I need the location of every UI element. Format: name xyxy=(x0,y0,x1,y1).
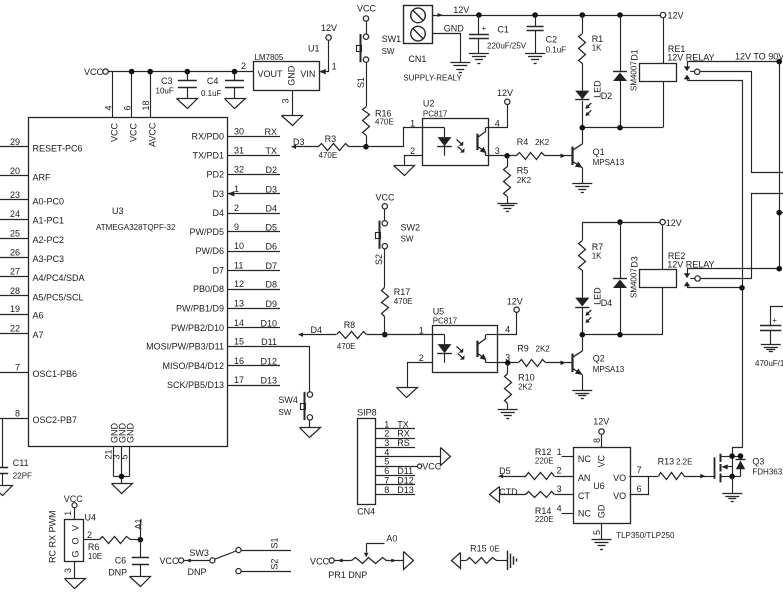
capacitor C6 DNP xyxy=(108,540,149,578)
svg-text:13: 13 xyxy=(234,299,244,309)
svg-text:470E: 470E xyxy=(319,151,338,160)
svg-text:2: 2 xyxy=(241,61,246,71)
mosfet Q3 FDH3632 xyxy=(706,454,783,483)
node 12V above U5 pin 4 xyxy=(507,296,523,312)
svg-text:A1: A1 xyxy=(133,518,143,529)
wire VCC to SW3 pole xyxy=(184,559,210,563)
wire CN4 pin 2 xyxy=(375,429,415,439)
net label D3 wire from MCU xyxy=(292,137,319,149)
svg-text:D3: D3 xyxy=(293,137,305,147)
svg-text:D4: D4 xyxy=(311,325,323,335)
svg-text:U4: U4 xyxy=(85,512,97,522)
svg-text:VIN: VIN xyxy=(300,69,315,79)
svg-text:D13: D13 xyxy=(397,485,414,495)
ground below U6 pin 5 xyxy=(592,539,612,541)
svg-text:CT: CT xyxy=(578,491,590,501)
gate driver U6 TLP350/TLP250 xyxy=(557,438,675,540)
svg-text:LM7805: LM7805 xyxy=(254,53,283,62)
svg-text:470E: 470E xyxy=(337,342,356,351)
svg-text:D7: D7 xyxy=(265,261,277,271)
svg-text:VCC: VCC xyxy=(160,556,180,566)
node VCC terminal to PR1 xyxy=(310,556,334,566)
svg-text:12V: 12V xyxy=(666,218,682,228)
junction RE2 NO on vertical xyxy=(739,285,745,291)
ground below U4 xyxy=(65,579,86,589)
svg-text:12V: 12V xyxy=(507,296,523,306)
connector CN1 terminal block SUPPLY-REALY xyxy=(403,6,462,83)
svg-text:PD2: PD2 xyxy=(206,170,224,180)
transistor Q1 MPSA13 xyxy=(572,128,625,184)
junction C4 xyxy=(232,69,238,75)
node 12V terminal above U1 xyxy=(321,23,337,40)
svg-text:C3: C3 xyxy=(161,76,173,86)
resistor R4 2K2 xyxy=(517,137,550,160)
node 12V above U2 pin 4 xyxy=(497,88,513,105)
svg-text:3: 3 xyxy=(495,146,500,156)
resistor R6 10E xyxy=(88,537,140,562)
svg-text:MOSI/PW/PB3/D11: MOSI/PW/PB3/D11 xyxy=(146,342,224,352)
svg-text:SM4007: SM4007 xyxy=(630,268,639,298)
svg-text:D2: D2 xyxy=(601,91,613,101)
svg-text:S1: S1 xyxy=(356,77,366,88)
svg-text:8: 8 xyxy=(15,408,20,418)
svg-text:MPSA13: MPSA13 xyxy=(593,365,625,374)
svg-text:A4/PC4/SDA: A4/PC4/SDA xyxy=(33,273,85,283)
svg-text:0E: 0E xyxy=(490,545,500,554)
svg-text:R13: R13 xyxy=(658,457,675,467)
svg-text:10: 10 xyxy=(234,241,244,251)
svg-text:PW/PD5: PW/PD5 xyxy=(189,227,224,237)
svg-text:U5: U5 xyxy=(433,307,445,317)
svg-text:A3-PC3: A3-PC3 xyxy=(33,254,65,264)
svg-text:GND: GND xyxy=(444,23,465,33)
node VCC top-left terminal xyxy=(84,67,108,77)
svg-text:12V: 12V xyxy=(453,5,469,15)
switch SW3 SPDT DNP xyxy=(188,547,242,577)
capacitor C11 22PF xyxy=(0,458,32,486)
svg-text:A5/PC5/SCL: A5/PC5/SCL xyxy=(33,292,84,302)
ground below C3 xyxy=(177,99,198,109)
relay RE2 contacts xyxy=(684,269,701,288)
svg-text:D10: D10 xyxy=(260,318,277,328)
resistor R7 1K xyxy=(579,222,604,298)
wire U3 pin 7 OSC1-PB6 xyxy=(0,362,77,379)
wire U3 pin 20 ARF xyxy=(0,166,51,183)
svg-text:S2: S2 xyxy=(270,559,280,570)
svg-text:GND: GND xyxy=(125,423,135,444)
svg-text:VOUT: VOUT xyxy=(258,69,284,79)
wire RE1 NC contact to right edge 12V TO 90V xyxy=(687,52,783,62)
body diode of Q3 xyxy=(732,456,745,476)
svg-text:2: 2 xyxy=(419,353,424,363)
wire U5 pin 2 to ground xyxy=(408,363,433,388)
svg-text:15: 15 xyxy=(234,337,244,347)
svg-text:RC RX PWM: RC RX PWM xyxy=(48,511,58,564)
wire R13 to Q3 gate with arrow xyxy=(684,474,706,479)
wire U2 pin 3 to R4 xyxy=(489,155,517,157)
arrow output of PR1 xyxy=(404,552,414,570)
wire CN1 GND pin xyxy=(433,23,465,62)
svg-text:ATMEGA328TQPF-32: ATMEGA328TQPF-32 xyxy=(96,223,176,232)
svg-text:D4: D4 xyxy=(212,208,224,218)
wire U3 pin 13 PW/PB1/D9 net D9 xyxy=(176,299,280,314)
svg-text:12V: 12V xyxy=(668,11,684,21)
svg-text:A0: A0 xyxy=(386,534,397,544)
junction at U3 ground xyxy=(119,474,125,480)
ground below C2 xyxy=(525,53,545,55)
svg-text:2: 2 xyxy=(410,146,415,156)
wire U3 pin 9 PW/PD5 net D5 xyxy=(189,222,280,237)
capacitor C1 220uF/25V xyxy=(469,15,527,53)
svg-text:28: 28 xyxy=(10,286,20,296)
svg-text:PW/D6: PW/D6 xyxy=(195,246,224,256)
junction D3 bottom xyxy=(617,332,623,338)
input arrow on U3 pin 1 D3 xyxy=(228,191,235,197)
svg-text:D6: D6 xyxy=(265,242,277,252)
svg-text:R10: R10 xyxy=(518,373,535,383)
optocoupler U2 PC817 xyxy=(410,99,500,166)
wire VCC to SW1 xyxy=(366,21,368,34)
svg-text:5: 5 xyxy=(592,530,602,535)
wire U3 pin 26 A3-PC3 xyxy=(0,248,64,265)
svg-text:3: 3 xyxy=(557,484,562,494)
wire U3 pin 10 PW/D6 net D6 xyxy=(195,241,280,256)
svg-text:Q2: Q2 xyxy=(593,354,605,364)
svg-text:CN4: CN4 xyxy=(357,507,375,517)
connector CN4 SIP8 xyxy=(357,408,377,517)
resistor R17 470E xyxy=(382,287,413,317)
svg-text:30: 30 xyxy=(234,127,244,137)
svg-text:7: 7 xyxy=(15,362,20,372)
svg-text:CN1: CN1 xyxy=(408,54,426,64)
wire pin7 to R13 xyxy=(648,476,658,478)
junction R16 D3 wire xyxy=(363,144,369,150)
node 12V terminal channel 2 xyxy=(660,218,682,228)
ground below C11 xyxy=(0,486,13,496)
svg-text:1K: 1K xyxy=(592,44,602,53)
svg-text:RS: RS xyxy=(397,438,410,448)
wire R17 to D4 node xyxy=(384,317,386,335)
junction right edge RE1 NC xyxy=(776,59,782,65)
svg-text:12V: 12V xyxy=(497,88,513,98)
svg-text:2: 2 xyxy=(87,530,92,540)
svg-text:VCC: VCC xyxy=(357,4,377,14)
svg-text:16: 16 xyxy=(234,356,244,366)
svg-text:A6: A6 xyxy=(33,311,44,321)
svg-text:R7: R7 xyxy=(592,242,604,252)
svg-text:1: 1 xyxy=(410,118,415,128)
svg-text:12V: 12V xyxy=(593,417,609,427)
wire RE1 NO contact xyxy=(688,81,743,288)
wire U3 pin 1 D3 net D3 xyxy=(212,184,280,199)
wire relay NO bus down to Q3 drain xyxy=(733,288,743,457)
resistor R10 2K2 xyxy=(505,363,535,410)
junction D3 on channel2 rail xyxy=(617,219,623,225)
junction right edge RE2 NC xyxy=(776,266,782,272)
svg-text:D2: D2 xyxy=(265,165,277,175)
svg-text:NC: NC xyxy=(578,509,591,519)
node VCC terminal above SW1 xyxy=(357,4,377,22)
ground below R5 xyxy=(497,203,517,205)
svg-text:D7: D7 xyxy=(212,265,224,275)
connector U4 RC RX PWM xyxy=(48,508,97,563)
junction U2 pin3 R5 xyxy=(504,153,510,159)
svg-text:ARF: ARF xyxy=(33,172,52,182)
wire RE2 common contact xyxy=(700,278,752,280)
svg-text:R3: R3 xyxy=(325,134,337,144)
svg-text:R5: R5 xyxy=(517,166,529,176)
svg-text:D4: D4 xyxy=(265,204,277,214)
svg-text:18: 18 xyxy=(141,100,151,110)
microcontroller U3 ATMEGA328TQPF-32 body xyxy=(29,118,228,447)
ground below C6 xyxy=(130,577,151,587)
svg-text:A2-PC2: A2-PC2 xyxy=(33,235,65,245)
wire CN4 pin 4 xyxy=(375,447,440,457)
svg-text:29: 29 xyxy=(10,137,20,147)
wire SW3 throw S1 xyxy=(241,537,291,550)
ground below C1 xyxy=(469,53,489,55)
svg-text:G: G xyxy=(70,550,80,557)
wire U3 pin 28 A5/PC5/SCL xyxy=(0,286,84,303)
svg-text:17: 17 xyxy=(234,375,244,385)
svg-text:VO: VO xyxy=(613,473,626,483)
led D4 xyxy=(575,287,612,335)
svg-text:RX/PD0: RX/PD0 xyxy=(191,132,224,142)
switch SW2 push button xyxy=(376,221,421,249)
ground sideways at R15 xyxy=(508,551,517,570)
wire U3 pin 16 MISO/PB4/D12 net D12 xyxy=(162,356,280,371)
wire RE2 NC contact to right edge xyxy=(687,268,779,270)
node 12V above U6 xyxy=(593,417,609,435)
wire VIN to 12V terminal xyxy=(320,41,329,72)
ground below R10 xyxy=(498,409,518,411)
svg-text:NC: NC xyxy=(578,454,591,464)
svg-text:19: 19 xyxy=(10,304,20,314)
junction C2 on rail xyxy=(532,12,538,18)
svg-text:D12: D12 xyxy=(260,356,277,366)
wire U3 pin 15 MOSI/PW/PB3/D11 net D11 xyxy=(146,337,310,352)
node 12V terminal right end of rail xyxy=(660,11,683,21)
wire U6 pin7 pin6 join xyxy=(630,477,649,495)
svg-text:SUPPLY-REALY: SUPPLY-REALY xyxy=(403,73,462,82)
svg-text:2: 2 xyxy=(557,466,562,476)
wire U3 pin 24 A1-PC1 xyxy=(0,209,64,226)
ground below U2 pin 2 xyxy=(394,166,415,176)
wire U3 pin 12 PB0/D8 net D8 xyxy=(193,279,280,294)
svg-text:4: 4 xyxy=(495,118,500,128)
svg-text:PW/PB1/D9: PW/PB1/D9 xyxy=(176,304,224,314)
junction R6 C6 A1 xyxy=(138,537,144,543)
wire return from right edge to RE2 common xyxy=(752,194,783,279)
wire GND pins 21 3 5 of U3 xyxy=(104,423,136,484)
resistor R1 1K xyxy=(579,15,604,91)
svg-text:0.1uF: 0.1uF xyxy=(546,45,567,54)
svg-text:VCC: VCC xyxy=(422,462,442,472)
svg-text:U2: U2 xyxy=(423,99,435,109)
svg-text:1: 1 xyxy=(332,62,337,72)
wire R16 to D3 node xyxy=(366,136,368,147)
svg-text:SIP8: SIP8 xyxy=(357,408,377,418)
ground below Q2 emitter xyxy=(572,390,592,392)
ground below U1 xyxy=(282,116,303,126)
svg-text:3: 3 xyxy=(63,568,73,573)
svg-text:VCC: VCC xyxy=(84,67,104,77)
svg-text:8: 8 xyxy=(384,485,389,495)
svg-text:1: 1 xyxy=(419,325,424,335)
led D2 xyxy=(575,80,612,128)
svg-text:SW3: SW3 xyxy=(189,548,209,558)
wire U3 pin 27 A4/PC4/SDA xyxy=(0,267,85,284)
svg-text:1: 1 xyxy=(234,184,239,194)
svg-text:220E: 220E xyxy=(535,457,554,466)
svg-text:220E: 220E xyxy=(535,515,554,524)
node VCC above U4 xyxy=(64,494,84,508)
svg-text:R4: R4 xyxy=(517,137,529,147)
svg-text:PC817: PC817 xyxy=(433,317,458,326)
svg-text:2: 2 xyxy=(234,203,239,213)
voltage regulator U1 LM7805 xyxy=(241,44,337,104)
svg-text:2K2: 2K2 xyxy=(517,176,532,185)
svg-text:7: 7 xyxy=(637,465,642,475)
svg-text:2.2E: 2.2E xyxy=(676,458,692,467)
svg-text:D4: D4 xyxy=(601,298,613,308)
resistor R14 220E xyxy=(526,492,574,524)
svg-text:1K: 1K xyxy=(592,252,602,261)
svg-text:C1: C1 xyxy=(497,25,509,35)
svg-text:OSC1-PB6: OSC1-PB6 xyxy=(33,369,78,379)
svg-text:22: 22 xyxy=(10,323,20,333)
junction C1 on rail xyxy=(476,12,482,18)
wire CN4 pin 7 xyxy=(375,475,415,485)
svg-text:25: 25 xyxy=(10,228,20,238)
svg-text:MISO/PB4/D12: MISO/PB4/D12 xyxy=(162,361,224,371)
svg-text:D1: D1 xyxy=(629,49,639,61)
wire U4 pin 3 to ground xyxy=(63,562,75,579)
svg-text:SW4: SW4 xyxy=(278,395,298,405)
ground below Q1 emitter xyxy=(572,183,592,185)
junction D1 on rail xyxy=(617,12,623,18)
wire VCC pin 4 of U3 xyxy=(103,72,119,142)
wire VCC to SW2 xyxy=(384,209,386,221)
wire U3 pin 8 OSC2-PB7 xyxy=(0,408,77,425)
wire U6 pin8 to 12V xyxy=(601,434,603,447)
node VCC on CN4 pin 5 xyxy=(417,462,441,472)
diode D1 SM4007 xyxy=(613,15,639,128)
net label D4 wire from MCU xyxy=(299,325,337,337)
svg-text:23: 23 xyxy=(10,190,20,200)
svg-text:TX/PD1: TX/PD1 xyxy=(192,151,224,161)
svg-text:22PF: 22PF xyxy=(13,471,32,480)
svg-text:20: 20 xyxy=(10,166,20,176)
capacitor 470uF/100V xyxy=(755,307,783,368)
svg-text:2K2: 2K2 xyxy=(535,138,550,147)
ground below SW4 xyxy=(300,428,321,438)
svg-text:2K2: 2K2 xyxy=(518,382,533,391)
wire SW1 to R16 net S1 xyxy=(356,62,367,106)
wire PR1 to output arrow xyxy=(386,559,404,563)
svg-text:1: 1 xyxy=(63,511,73,516)
svg-text:+: + xyxy=(482,24,487,33)
junction AVCC pin18 xyxy=(147,69,153,75)
wire U2 pin 4 to 12V xyxy=(489,105,508,128)
wire U6 pin1 NC stub xyxy=(562,456,574,458)
svg-text:8: 8 xyxy=(592,438,602,443)
svg-text:GND: GND xyxy=(287,65,297,86)
svg-text:R17: R17 xyxy=(394,287,411,297)
svg-text:D5: D5 xyxy=(265,222,277,232)
svg-text:AVCC: AVCC xyxy=(147,122,157,147)
svg-text:D9: D9 xyxy=(265,299,277,309)
svg-text:10uF: 10uF xyxy=(156,87,174,96)
svg-text:D3: D3 xyxy=(265,184,277,194)
svg-text:DNP: DNP xyxy=(108,568,127,578)
wire Q1 collector node xyxy=(582,127,663,129)
junction R17 D4 wire xyxy=(382,332,388,338)
ground below Q3 xyxy=(722,493,742,495)
svg-text:9: 9 xyxy=(234,222,239,232)
ground below 470uF cap xyxy=(761,344,781,346)
wire VCC pin 6 of U3 xyxy=(123,72,139,142)
svg-text:C4: C4 xyxy=(207,76,219,86)
ground below U5 pin 2 xyxy=(397,388,418,398)
svg-text:R9: R9 xyxy=(517,343,529,353)
resistor R9 2K2 xyxy=(517,343,550,366)
wire CN4 pin 6 xyxy=(375,466,415,476)
switch SW1 push button xyxy=(357,34,402,62)
wire U3 pin 30 RX/PD0 net RX xyxy=(191,127,280,142)
relay RE1 contacts xyxy=(684,62,700,81)
junction U5 pin3 R10 xyxy=(505,360,511,366)
svg-text:SW: SW xyxy=(401,234,414,243)
svg-text:12V: 12V xyxy=(321,23,337,33)
svg-text:27: 27 xyxy=(10,267,20,277)
ground below U3 GND pins xyxy=(112,484,133,494)
ground below C4 xyxy=(225,99,246,109)
svg-text:VCC: VCC xyxy=(129,122,139,142)
svg-text:32: 32 xyxy=(234,165,244,175)
wire U3 pin 29 RESET-PC6 xyxy=(0,137,83,154)
wire U5 pin 4 to 12V xyxy=(498,313,517,335)
svg-text:U3: U3 xyxy=(112,206,124,216)
wire SW3 throw S2 xyxy=(241,559,291,572)
transistor Q2 MPSA13 xyxy=(572,335,625,391)
svg-text:RX: RX xyxy=(264,127,277,137)
wire CN4 pin 3 xyxy=(375,438,415,448)
optocoupler U5 PC817 xyxy=(419,307,510,373)
svg-text:24: 24 xyxy=(10,209,20,219)
svg-text:S2: S2 xyxy=(374,254,384,265)
svg-text:Q3: Q3 xyxy=(752,457,764,467)
wire U3 pin 32 PD2 net D2 xyxy=(206,165,280,180)
wire U3 pin 11 D7 net D7 xyxy=(212,260,280,275)
net label D5 wire to R12 xyxy=(499,466,526,478)
resistor R15 0E xyxy=(460,544,507,564)
svg-text:4: 4 xyxy=(505,325,510,335)
svg-text:470uF/100V: 470uF/100V xyxy=(755,359,783,368)
net label CTD arrow wire to R14 xyxy=(490,487,526,503)
wire Q2 collector node xyxy=(582,334,663,336)
wire U3 pin 14 PW/PB2/D10 net D10 xyxy=(171,318,280,333)
wire U3 pin 22 A7 xyxy=(0,323,44,340)
svg-text:VCC: VCC xyxy=(110,122,120,142)
svg-text:D3: D3 xyxy=(212,189,224,199)
svg-text:5: 5 xyxy=(120,454,130,459)
relay RE2 12V RELAY coil xyxy=(640,225,715,335)
wire R8 to U5 pin 1 xyxy=(367,334,445,336)
capacitor C4 0.1uF xyxy=(201,72,244,99)
arrow input to R15 xyxy=(452,553,461,569)
wire GND pin 3 of U1 xyxy=(292,90,294,116)
